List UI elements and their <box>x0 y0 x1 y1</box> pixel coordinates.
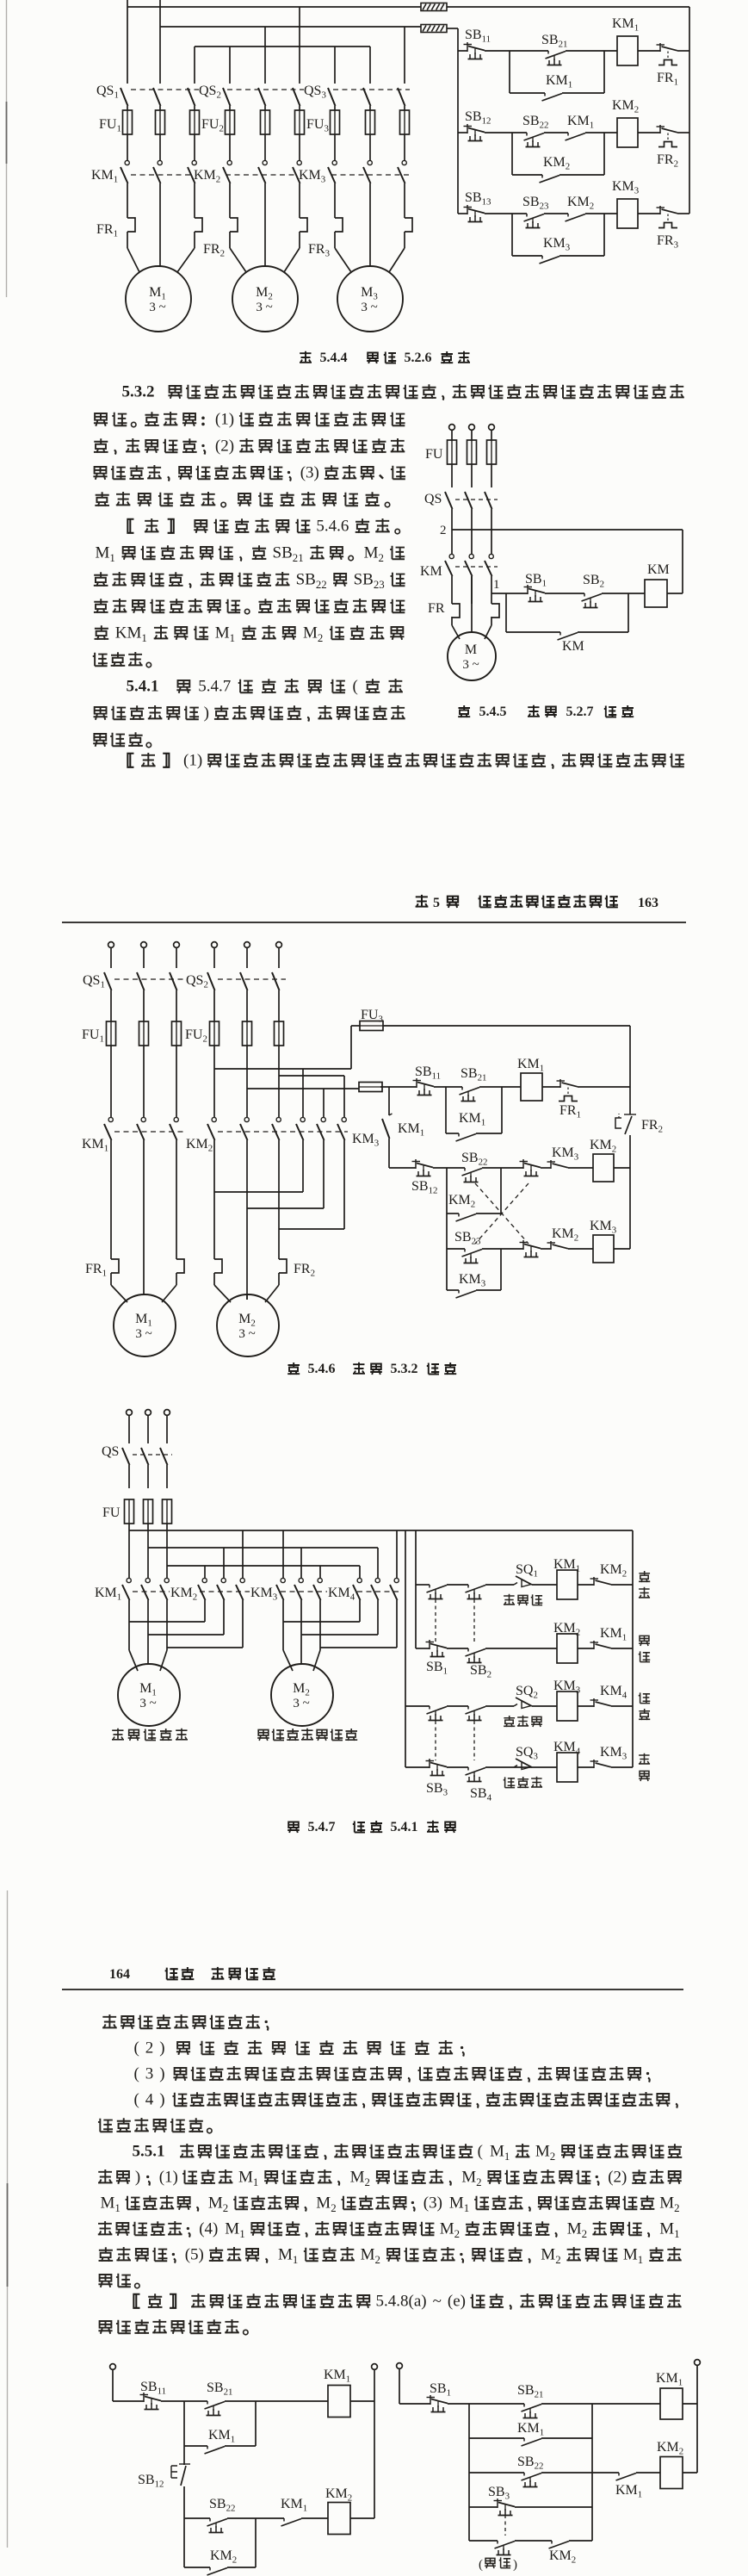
wire bus B <box>160 26 421 28</box>
limit switch SQ2 <box>514 1684 538 1709</box>
contactor contacts KM2 <box>186 1117 281 1153</box>
wire <box>301 2517 328 2519</box>
svg-text:KM: KM <box>647 562 670 577</box>
wire <box>638 132 660 133</box>
svg-text:QS1: QS1 <box>83 973 105 990</box>
svg-text:): ) <box>159 2065 164 2083</box>
wire <box>485 1648 514 1649</box>
wire rung 3 <box>458 213 467 214</box>
svg-text:KM1: KM1 <box>546 73 572 90</box>
wire <box>544 213 568 214</box>
aux contact KM1 <box>566 114 595 140</box>
svg-text:FU3: FU3 <box>361 1008 383 1025</box>
svg-text:3 ~: 3 ~ <box>135 1327 151 1341</box>
wire dropper <box>369 47 371 84</box>
wire slant left <box>335 248 351 272</box>
thermal overload FR3 heater right <box>405 218 412 232</box>
wire coil to rail <box>667 593 683 594</box>
svg-text:SB12: SB12 <box>138 2473 164 2490</box>
terminal left <box>397 2363 403 2369</box>
fuse FU2 <box>201 110 305 160</box>
wire <box>614 1248 630 1250</box>
svg-text:SB3: SB3 <box>488 2485 510 2502</box>
svg-text:SB4: SB4 <box>470 1786 492 1803</box>
contactor main contacts KM1 <box>91 160 196 218</box>
wire dropper <box>229 47 231 84</box>
contactor contacts KM3 <box>250 1578 322 1602</box>
wire bus B <box>148 1524 378 1548</box>
wire middle phase <box>264 218 266 266</box>
contactor coil KM1 <box>656 2371 683 2419</box>
svg-text:M2: M2 <box>293 1681 310 1698</box>
svg-text:3 ~: 3 ~ <box>238 1327 255 1341</box>
wire <box>447 1705 468 1707</box>
wire <box>161 2400 207 2402</box>
wire slant right <box>284 248 300 272</box>
svg-text:(4): (4) <box>199 2220 218 2238</box>
thermal contact FR1 <box>657 43 679 88</box>
wire <box>514 1766 531 1768</box>
aux contact self-hold KM1 <box>517 2421 544 2446</box>
terminal right <box>695 2360 701 2366</box>
svg-text:KM: KM <box>562 639 584 654</box>
svg-text:FU: FU <box>102 1505 121 1520</box>
svg-text:SB1: SB1 <box>426 1660 448 1677</box>
page header 164 <box>62 1967 683 1989</box>
svg-text:SB23: SB23 <box>522 195 549 212</box>
pushbutton NO SB21 <box>517 2383 543 2418</box>
svg-text:M1: M1 <box>623 2246 643 2266</box>
paragraph jie 5.5.1 <box>98 2293 681 2335</box>
wire <box>479 1086 521 1088</box>
wire <box>683 2403 697 2405</box>
paragraph jie 5.4.1 line1 <box>127 752 684 770</box>
svg-text:KM4: KM4 <box>328 1586 355 1603</box>
svg-text:SQ1: SQ1 <box>516 1562 538 1580</box>
svg-text:KM3: KM3 <box>612 179 640 196</box>
aux contact self-hold KM <box>558 632 584 654</box>
motor M1 <box>118 1664 180 1726</box>
terminal left <box>110 2364 116 2370</box>
thermal contact FR3 <box>657 206 679 251</box>
thermal overload FR3 heater left <box>335 218 343 232</box>
svg-text:3 ~: 3 ~ <box>256 301 272 314</box>
svg-text:M2: M2 <box>208 2194 228 2214</box>
svg-text:FU: FU <box>425 447 443 462</box>
thermal overload FR1 heater right <box>195 218 202 232</box>
wire rung <box>405 1705 430 1707</box>
aux contact NC KM3 <box>547 1145 579 1169</box>
pushbutton contact 1 <box>426 1640 448 1657</box>
wire <box>225 2400 328 2402</box>
wire self-hold branch KM1 <box>446 1087 502 1133</box>
svg-text:SB21: SB21 <box>541 33 567 50</box>
svg-text:SB3: SB3 <box>426 1781 448 1798</box>
svg-text:FR1: FR1 <box>85 1262 107 1279</box>
svg-text:KM3: KM3 <box>299 168 326 185</box>
wire crossover phase2 <box>323 1089 325 1117</box>
wire <box>545 593 584 594</box>
wire self-hold branch KM1 <box>184 2401 256 2446</box>
svg-text:KM1: KM1 <box>459 1111 485 1128</box>
svg-text:(: ( <box>479 2558 483 2572</box>
pushbutton contact 2 <box>466 1648 486 1663</box>
svg-text:5: 5 <box>433 896 440 910</box>
svg-text:(5): (5) <box>185 2246 204 2264</box>
svg-text:M2: M2 <box>440 2220 460 2240</box>
svg-text:SB2: SB2 <box>583 573 604 590</box>
aux contact NC KM2 <box>547 1226 579 1250</box>
switch QS3 <box>304 84 405 110</box>
svg-text:M3: M3 <box>361 285 378 302</box>
wire <box>541 1248 551 1250</box>
svg-text:KM2: KM2 <box>170 1586 197 1603</box>
svg-text:M2: M2 <box>567 2220 587 2240</box>
wire dropper <box>404 27 405 84</box>
pushbutton NC SB3 <box>488 2485 515 2516</box>
svg-text:SB2: SB2 <box>470 1663 491 1680</box>
svg-text:(: ( <box>134 2065 139 2083</box>
svg-text:KM3: KM3 <box>553 1679 581 1696</box>
svg-text:5.5.1: 5.5.1 <box>133 2143 165 2161</box>
svg-text:M2: M2 <box>361 2246 380 2266</box>
paragraph 5.4.1 <box>93 678 405 748</box>
svg-text:KM2: KM2 <box>600 1562 627 1580</box>
wire <box>531 1766 557 1768</box>
caption fig 5.4.7 <box>287 1820 456 1834</box>
svg-text:KM1: KM1 <box>517 2421 544 2438</box>
label limit name <box>504 1716 542 1727</box>
fuse FU <box>102 1499 172 1524</box>
fuse FU2 <box>185 1021 284 1117</box>
aux contact self-hold KM2 <box>540 155 571 183</box>
wire to motor M1 <box>129 1622 167 1671</box>
aux contact KM2 <box>566 195 595 221</box>
wire <box>485 132 527 133</box>
svg-text:FU1: FU1 <box>99 117 121 134</box>
contactor coil KM3 <box>590 1219 617 1263</box>
pushbutton NO SB21 <box>541 33 567 65</box>
wire <box>482 1248 523 1250</box>
switch QS2 <box>186 972 280 1021</box>
caption fig 5.4.6 <box>287 1362 456 1376</box>
wire droppers to contact groups <box>129 1530 397 1578</box>
limit switch SQ3 <box>514 1745 538 1770</box>
svg-text:KM1: KM1 <box>281 2497 307 2514</box>
wire <box>350 2400 374 2402</box>
wire <box>541 2403 660 2405</box>
motor M2 <box>217 1294 279 1356</box>
svg-text:KM3: KM3 <box>600 1745 627 1762</box>
svg-text:FR3: FR3 <box>657 233 679 251</box>
pushbutton NC SB13 <box>464 190 492 222</box>
wire rung1 <box>380 1086 417 1088</box>
svg-text:M1: M1 <box>238 2169 258 2188</box>
svg-text:5.2.7: 5.2.7 <box>566 705 594 719</box>
contactor main contacts KM2 <box>194 160 301 218</box>
wire branch KM1 self-hold <box>469 2437 524 2439</box>
paragraph 5.5.1 <box>98 2143 682 2288</box>
svg-text:QS3: QS3 <box>304 84 326 101</box>
svg-text:SB21: SB21 <box>517 2383 543 2400</box>
svg-text:FR: FR <box>428 601 445 616</box>
wire <box>542 1086 560 1088</box>
contactor coil KM2 <box>553 1621 580 1663</box>
svg-text:M1: M1 <box>149 285 166 302</box>
limit switch SQ1 <box>514 1562 538 1587</box>
svg-text:3: 3 <box>145 2065 154 2083</box>
aux contact series KM1 vertical <box>382 1087 424 1168</box>
svg-text:SB21: SB21 <box>461 1066 486 1083</box>
contactor coil KM1 <box>324 2368 350 2418</box>
wire self-hold branch KM3 <box>447 1249 501 1290</box>
fuse FU3 <box>360 1008 383 1031</box>
pushbutton NC SB12 <box>411 1159 437 1196</box>
fuse FU1 <box>82 1021 182 1117</box>
wire right rail <box>689 7 690 214</box>
svg-text:2: 2 <box>145 2039 154 2058</box>
wire bus A <box>129 1524 633 1530</box>
aux contact KM1 <box>615 2473 642 2500</box>
contactor contacts KM3 <box>296 1117 380 1148</box>
wire <box>434 1086 462 1088</box>
wire <box>638 50 660 52</box>
wire rung 1 <box>458 50 467 52</box>
svg-text:QS1: QS1 <box>96 84 119 101</box>
wire rung3 <box>447 1248 465 1250</box>
wire <box>448 2403 524 2405</box>
linkage QS dashed <box>131 89 410 90</box>
page header 163 <box>62 895 686 922</box>
svg-text:KM2: KM2 <box>543 155 570 172</box>
svg-text:): ) <box>204 705 209 723</box>
svg-text:KM: KM <box>420 564 442 579</box>
svg-text:KM2: KM2 <box>590 1138 616 1155</box>
svg-text:M2: M2 <box>256 285 273 302</box>
svg-text:5.4.6: 5.4.6 <box>316 518 349 536</box>
contactor contacts KM <box>420 554 493 604</box>
switch QS2 <box>199 84 300 110</box>
wire self-hold branch <box>506 593 628 632</box>
svg-text:SB21: SB21 <box>207 2380 232 2398</box>
svg-text:5.4.1: 5.4.1 <box>391 1820 418 1834</box>
wire dropper <box>264 27 266 84</box>
wire <box>611 1766 633 1768</box>
svg-text:FR1: FR1 <box>96 222 118 239</box>
svg-text:SB22: SB22 <box>461 1151 487 1168</box>
wire <box>227 2517 284 2519</box>
pushbutton NO jog <box>495 2541 516 2555</box>
svg-text:M2: M2 <box>659 2194 679 2214</box>
svg-text:KM1: KM1 <box>567 114 594 131</box>
linkage KM dashed <box>455 566 498 568</box>
wire right rail <box>374 2370 375 2519</box>
wire <box>514 1648 531 1649</box>
wire <box>350 2517 374 2519</box>
linkage QS dashed <box>133 1454 172 1456</box>
wire self-hold branch KM2 <box>512 133 604 175</box>
aux contact self-hold KM1 <box>456 1111 486 1141</box>
aux contact self-hold KM1 <box>205 2428 236 2454</box>
wire rung <box>405 1766 430 1768</box>
wire <box>578 1766 594 1768</box>
paragraph jie 5.3.2 <box>93 518 405 667</box>
svg-text:1: 1 <box>493 578 500 592</box>
wire node rail <box>468 2404 470 2541</box>
svg-text:(1): (1) <box>159 2169 178 2187</box>
wire <box>568 1248 593 1250</box>
svg-text:SB11: SB11 <box>465 28 491 45</box>
svg-text:SB12: SB12 <box>465 109 491 127</box>
terminals 3-phase <box>449 425 495 440</box>
svg-text:SB13: SB13 <box>465 190 491 208</box>
label function <box>639 1692 651 1720</box>
contactor coil KM4 <box>553 1740 581 1782</box>
svg-text:): ) <box>159 2091 164 2109</box>
wire <box>568 1167 593 1169</box>
svg-text:SQ3: SQ3 <box>516 1745 538 1762</box>
mechanical link dashed X <box>475 1183 529 1244</box>
svg-text:KM2: KM2 <box>549 2548 576 2566</box>
wire branch SB22 <box>469 2472 524 2474</box>
wire left rail rung34 <box>405 1530 406 1767</box>
contactor contacts KM4 <box>328 1578 399 1602</box>
thermal overload FR2 heater left <box>230 218 238 232</box>
svg-text:KM1: KM1 <box>398 1121 424 1139</box>
svg-text:KM1: KM1 <box>656 2371 683 2388</box>
svg-text:FU1: FU1 <box>82 1027 104 1045</box>
svg-text:M1: M1 <box>225 2220 244 2240</box>
mechanical link dashed buttons <box>436 1599 474 1760</box>
wire <box>113 2370 144 2402</box>
wire <box>677 213 689 214</box>
wire reversing junctions M2 <box>283 1600 397 1648</box>
svg-text:KM1: KM1 <box>600 1626 627 1643</box>
motor M <box>448 632 496 680</box>
aux contact self-hold KM2 <box>207 2548 238 2575</box>
svg-text:FU2: FU2 <box>185 1027 207 1045</box>
wire slant left <box>230 248 246 272</box>
wire crossover phase1 <box>302 1069 304 1117</box>
switch QS1 <box>96 84 195 110</box>
svg-text:4: 4 <box>145 2091 154 2109</box>
svg-text:(3): (3) <box>423 2194 442 2213</box>
aux contact KM1 <box>281 2497 307 2526</box>
thermal overload FR <box>428 601 499 618</box>
aux contact NC KM3 <box>590 1745 627 1768</box>
svg-text:KM3: KM3 <box>590 1219 617 1236</box>
svg-text:KM3: KM3 <box>459 1272 486 1289</box>
switch QS1 <box>83 972 177 1021</box>
svg-text:SB21: SB21 <box>273 544 304 564</box>
svg-text:KM1: KM1 <box>115 624 147 644</box>
wire self-hold branch KM2 <box>447 1168 501 1214</box>
aux contact KM2 <box>549 2541 577 2566</box>
motor M1 <box>126 266 191 332</box>
paragraph interlock tail <box>98 2014 677 2133</box>
terminals <box>127 1410 170 1443</box>
wire <box>611 1584 633 1586</box>
wire rung <box>416 1584 430 1586</box>
wire phase1 to control FU3 <box>214 1068 351 1070</box>
wire <box>636 2472 660 2474</box>
svg-text:KM2: KM2 <box>553 1621 580 1638</box>
svg-text:5.4.8(a): 5.4.8(a) <box>376 2293 427 2311</box>
aux contact NC KM1 <box>590 1626 627 1649</box>
terminal right <box>372 2364 378 2370</box>
svg-text:(e): (e) <box>448 2293 466 2311</box>
aux contact NC KM2 <box>590 1562 627 1586</box>
pushbutton NC SB11 <box>464 28 491 59</box>
svg-text:SB22: SB22 <box>522 114 548 131</box>
thermal contact FR1 <box>557 1079 582 1120</box>
svg-text:M2: M2 <box>364 544 384 564</box>
svg-text:M1: M1 <box>659 2220 679 2240</box>
linkage QS dashed <box>114 978 286 980</box>
svg-text:M1: M1 <box>215 624 235 644</box>
wire branch SB3 <box>469 2506 498 2508</box>
motor M3 <box>337 266 403 332</box>
mechanical link dashed <box>504 2515 506 2536</box>
pushbutton NO SB22 <box>461 1151 487 1182</box>
label limit name <box>504 1594 542 1606</box>
wire phase2 to control fuse <box>247 1088 359 1089</box>
pushbutton NC linked SB23 <box>520 1159 541 1176</box>
thermal overload FR2 <box>214 1259 315 1285</box>
svg-text:SB23: SB23 <box>454 1230 481 1247</box>
contactor coil KM1 <box>517 1057 544 1101</box>
wire <box>638 213 660 214</box>
svg-text:FR1: FR1 <box>559 1103 581 1120</box>
wire <box>541 2437 592 2439</box>
pushbutton contact 2 <box>466 1706 486 1721</box>
svg-text:M2: M2 <box>541 2246 560 2266</box>
wire L1 supply stub <box>127 0 128 7</box>
label lifting motor <box>112 1729 188 1741</box>
wire <box>544 132 568 133</box>
svg-text:KM1: KM1 <box>553 1557 580 1574</box>
wire dropper <box>127 7 128 84</box>
contactor contacts KM1 <box>82 1117 178 1259</box>
svg-text:M1: M1 <box>490 2143 510 2163</box>
thermal overload FR1 <box>85 1259 184 1285</box>
wire <box>569 2540 592 2542</box>
svg-text:5.3.2: 5.3.2 <box>122 383 155 401</box>
wire <box>515 2540 552 2542</box>
svg-text:SB22: SB22 <box>517 2455 543 2472</box>
wire self-hold branch KM2 <box>184 2518 256 2567</box>
svg-text:QS: QS <box>102 1444 119 1459</box>
wire <box>585 132 617 133</box>
svg-text:5.3.2: 5.3.2 <box>391 1362 418 1376</box>
svg-text:5.4.7: 5.4.7 <box>198 678 231 696</box>
pushbutton contact 1 <box>427 1706 448 1721</box>
wire <box>578 1086 630 1088</box>
svg-text:FR2: FR2 <box>657 152 678 170</box>
wire <box>585 213 617 214</box>
wire left rail rung12 <box>415 1530 417 1648</box>
svg-text:SB1: SB1 <box>525 572 547 589</box>
svg-text:SQ2: SQ2 <box>516 1684 538 1701</box>
linkage KM2-KM3 dashed <box>218 1131 348 1133</box>
svg-text:SB22: SB22 <box>296 571 327 591</box>
svg-text:FR2: FR2 <box>203 242 225 259</box>
contactor coil KM1 <box>553 1557 580 1599</box>
svg-text:KM2: KM2 <box>448 1193 475 1210</box>
svg-text:KM3: KM3 <box>250 1586 278 1603</box>
wire to motor M2 <box>283 1622 320 1671</box>
contactor coil KM2 <box>657 2440 683 2489</box>
